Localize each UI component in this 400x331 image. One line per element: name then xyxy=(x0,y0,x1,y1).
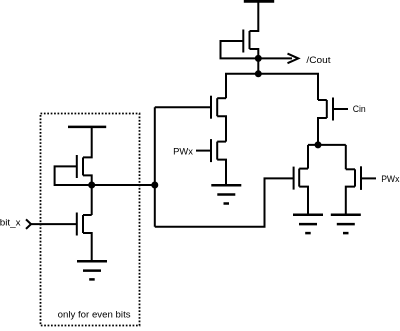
input pin chevron for bit_x xyxy=(26,219,31,229)
transistor Q4 (gate Cin) xyxy=(318,74,348,145)
wire from dashed box output to node C xyxy=(92,184,155,186)
ground G1 (below Q3) xyxy=(211,185,241,203)
wire node E down to T2 xyxy=(91,185,93,215)
transistor Q1 (diode-connected pull-up to /Cout) xyxy=(221,1,259,58)
wire bottom route to Q5 gate xyxy=(155,178,294,226)
label Cin xyxy=(353,104,366,115)
node /Cout junction dot xyxy=(255,55,262,62)
dashed box (only for even bits) xyxy=(41,114,140,326)
node B junction dot xyxy=(255,70,262,77)
svg-text:PWx: PWx xyxy=(173,147,193,158)
power supply VDD bar (in box) xyxy=(68,126,106,129)
ground G2 (below Q5) xyxy=(293,215,323,233)
wire arrow to /Cout xyxy=(258,54,298,64)
label PWx (left) xyxy=(173,147,193,158)
ground G3 (below Q6) xyxy=(331,215,361,233)
node C junction dot xyxy=(151,182,158,189)
svg-text:PWx: PWx xyxy=(381,174,399,185)
svg-text:only for even bits: only for even bits xyxy=(58,309,131,320)
power supply VDD bar (top) xyxy=(244,0,274,3)
wire node B to left branch xyxy=(226,74,258,98)
wire left net vertical (bit_x buffered node) xyxy=(154,107,156,227)
transistor Q6 (gate PWx right) xyxy=(346,145,376,215)
svg-text:Cin: Cin xyxy=(353,104,366,115)
transistor Q3 (gate PWx) xyxy=(196,139,226,185)
label only for even bits xyxy=(58,309,131,320)
transistor T2 (gate bit_x, in box) xyxy=(31,213,92,262)
node E junction dot xyxy=(88,182,95,189)
svg-text:/Cout: /Cout xyxy=(306,55,331,66)
wire node A to node B xyxy=(257,58,259,73)
transistor Q2 (gate from bit_x node) xyxy=(155,96,226,142)
ground G4 (in box) xyxy=(77,261,107,279)
transistor T1 (diode-connected, in box) xyxy=(55,127,92,185)
wire node D horizontal xyxy=(308,144,346,146)
transistor Q5 (gate from bottom route) xyxy=(294,145,308,215)
svg-text:bit_x: bit_x xyxy=(0,217,21,228)
label /Cout xyxy=(306,55,331,66)
wire node B to right branch xyxy=(258,74,318,100)
label bit_x xyxy=(0,217,21,228)
node D junction dot xyxy=(315,141,322,148)
label PWx (right) xyxy=(381,174,399,185)
